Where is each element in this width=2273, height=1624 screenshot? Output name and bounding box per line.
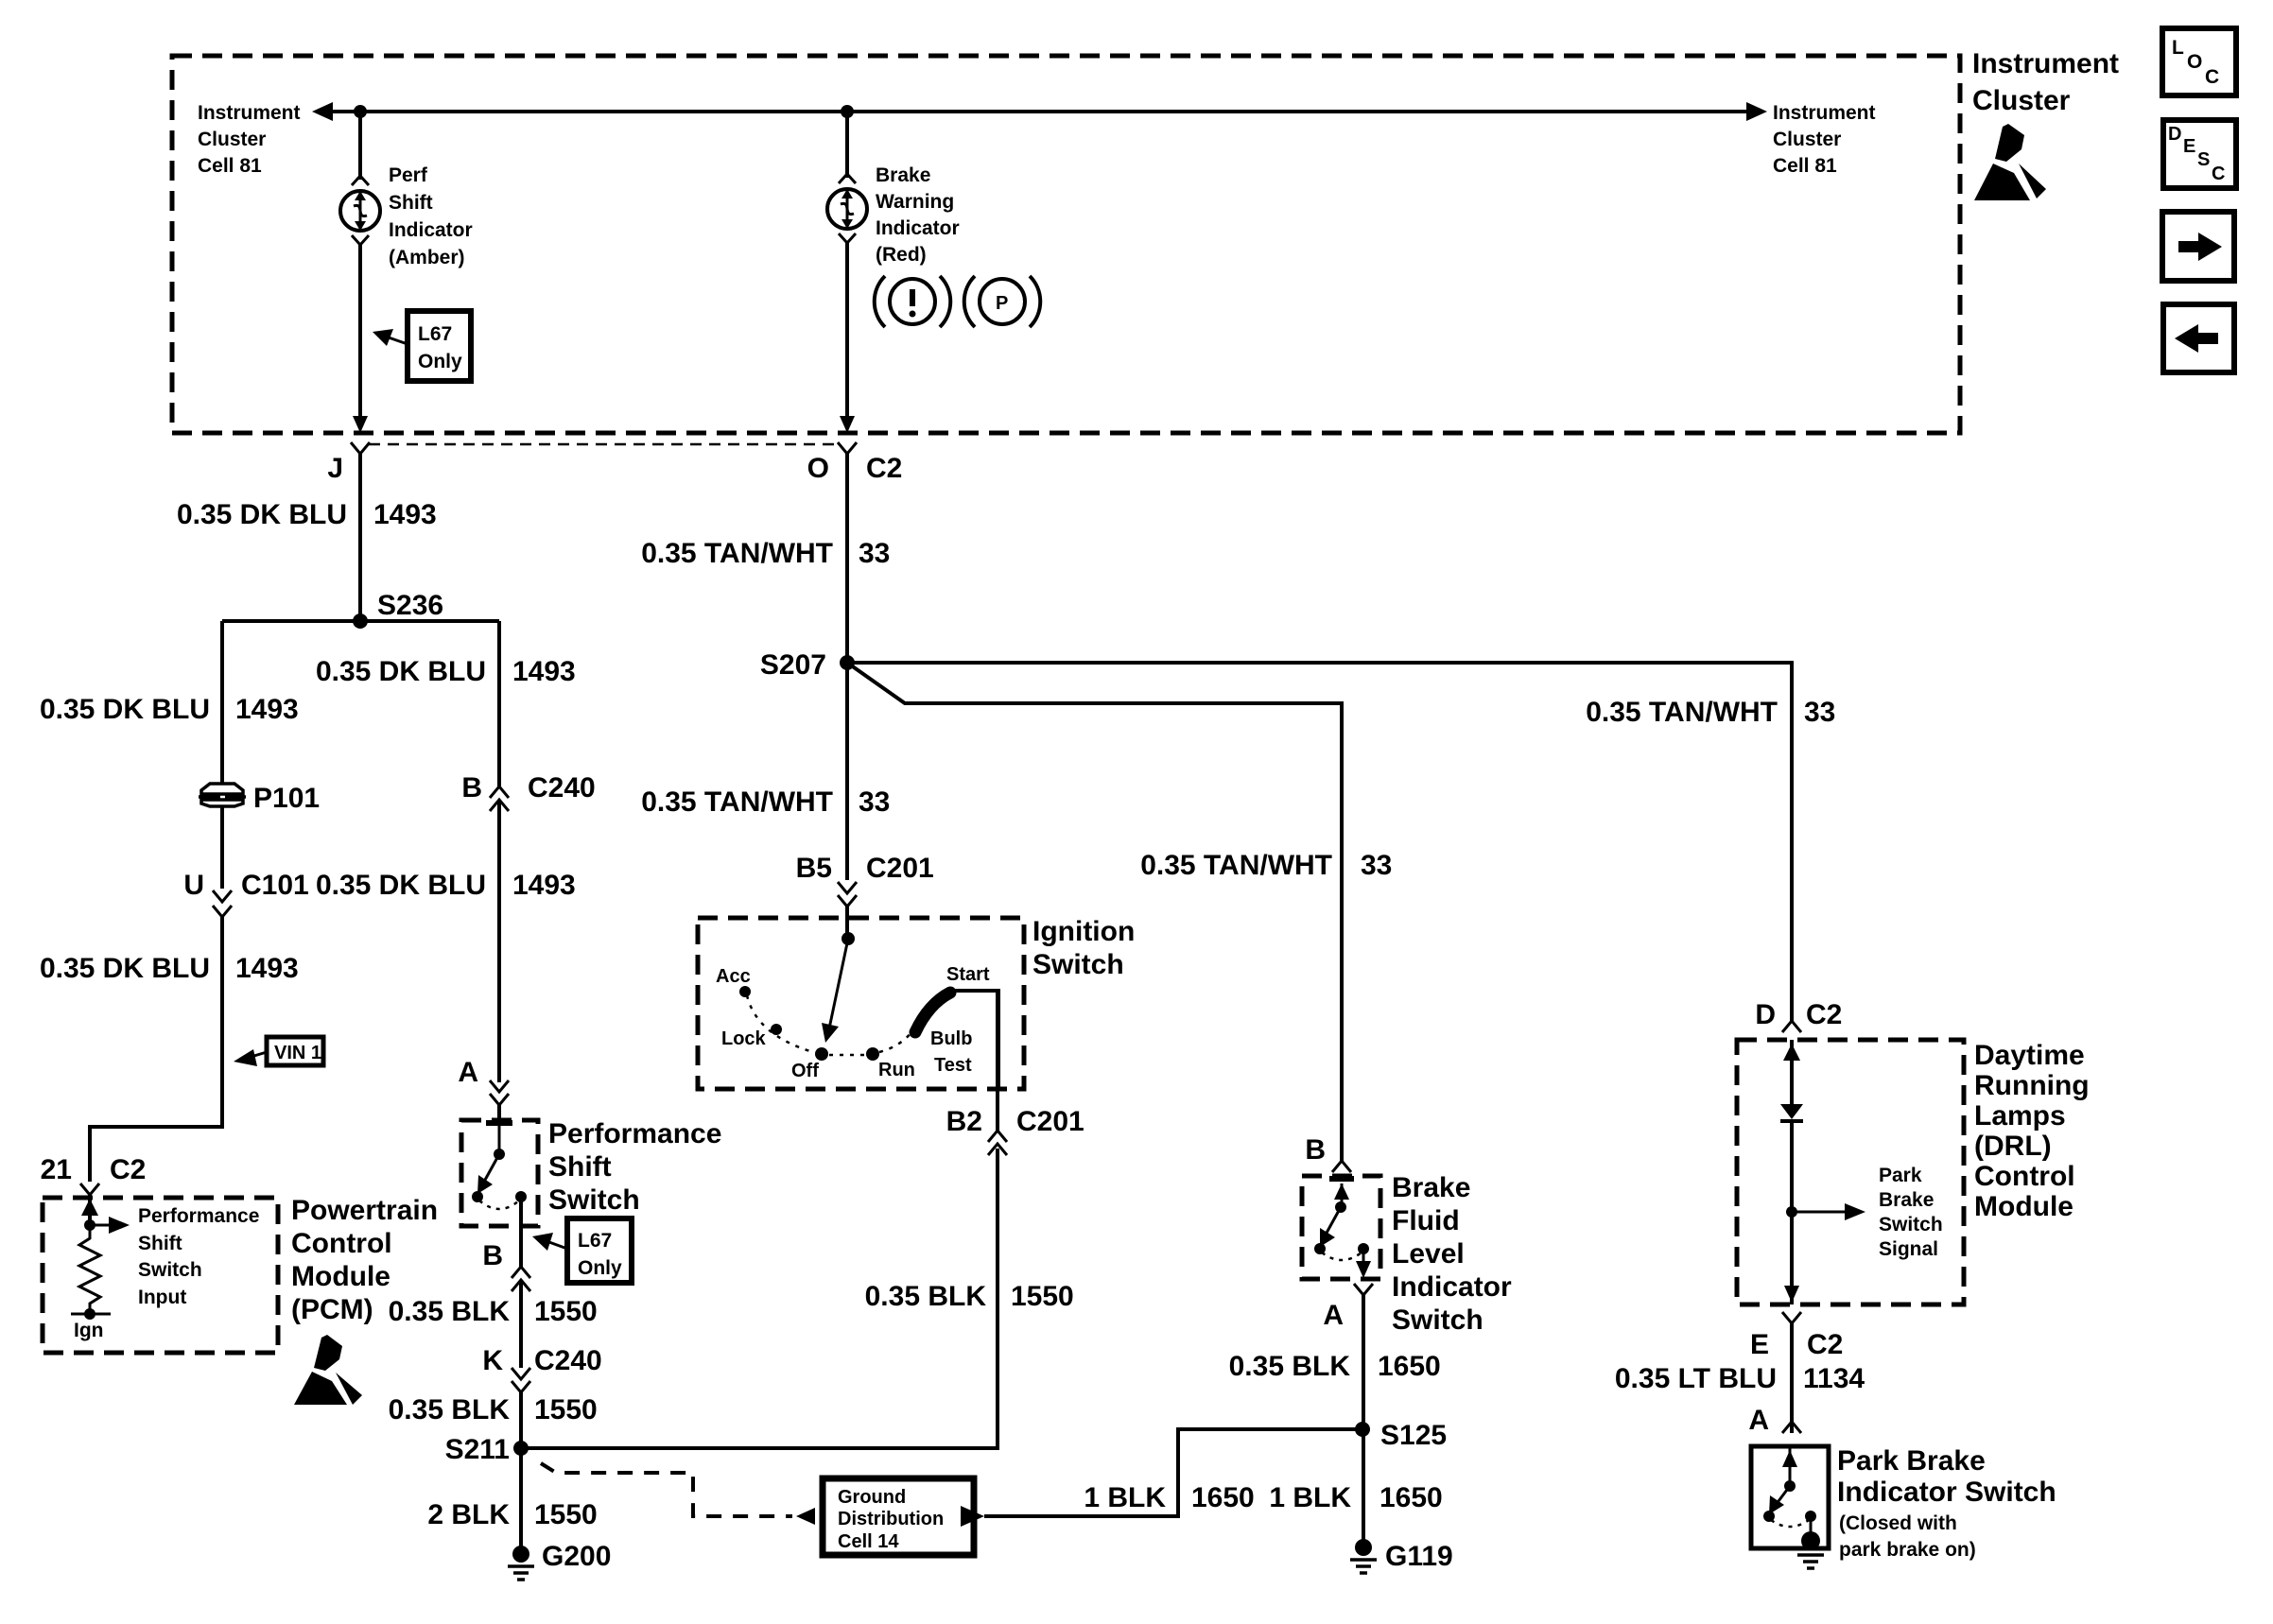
svg-text:G200: G200 — [542, 1541, 611, 1572]
svg-text:C2: C2 — [1807, 1329, 1843, 1360]
svg-text:Brake: Brake — [876, 164, 930, 186]
svg-text:Ground: Ground — [838, 1487, 906, 1508]
svg-text:Daytime: Daytime — [1974, 1040, 2085, 1071]
svg-text:C101: C101 — [241, 870, 309, 901]
wire: B2 riser up into ignition switch — [996, 991, 999, 1131]
svg-text:Switch: Switch — [548, 1184, 640, 1216]
dashed travel arc — [1322, 1253, 1362, 1260]
svg-text:C201: C201 — [1016, 1106, 1084, 1137]
connector B chevron (brake fluid) — [1332, 1161, 1351, 1172]
svg-text:A: A — [1748, 1405, 1769, 1436]
svg-text:1493: 1493 — [512, 656, 576, 687]
symbol: ESD sensitivity triangle (cluster) — [1974, 124, 2046, 200]
svg-text:Cell 81: Cell 81 — [198, 155, 262, 177]
svg-text:33: 33 — [1361, 850, 1392, 881]
performance shift switch dashed box — [461, 1120, 538, 1226]
arrowhead left on bus — [312, 102, 333, 121]
svg-text:Input: Input — [138, 1287, 186, 1308]
connector chevron below perf bulb — [352, 235, 369, 245]
svg-text:Only: Only — [578, 1257, 622, 1279]
lamp: perf shift indicator bulb — [340, 191, 380, 231]
ground G119 — [1350, 1539, 1453, 1573]
resistor inside PCM — [79, 1225, 100, 1314]
dashed travel arc — [479, 1201, 519, 1209]
diode — [1780, 1104, 1803, 1121]
ignition rotor node — [842, 932, 855, 945]
svg-text:P: P — [996, 293, 1008, 314]
svg-text:(PCM): (PCM) — [291, 1294, 373, 1325]
svg-text:Ign: Ign — [74, 1320, 104, 1341]
thin dashed connector line C2 between J and O — [369, 443, 840, 446]
svg-text:Shift: Shift — [389, 192, 433, 214]
svg-text:0.35 BLK: 0.35 BLK — [865, 1281, 987, 1312]
svg-text:Module: Module — [291, 1261, 390, 1292]
ground G200 — [508, 1541, 611, 1580]
wire: brake branch lower — [845, 243, 849, 429]
wire: diode down to bottom of DRL — [1790, 1119, 1794, 1304]
svg-text:Start: Start — [946, 964, 990, 985]
svg-text:0.35 TAN/WHT: 0.35 TAN/WHT — [641, 538, 833, 569]
next-page arrow box — [2162, 212, 2234, 281]
svg-text:1 BLK: 1 BLK — [1084, 1482, 1166, 1513]
svg-text:S236: S236 — [377, 590, 443, 621]
ignition selector arrow to Off — [829, 939, 848, 1028]
wire: main bus inside instrument cluster — [326, 110, 1754, 113]
svg-text:Warning: Warning — [876, 191, 954, 213]
symbol: ESD sensitivity triangle (PCM) — [294, 1335, 362, 1405]
wire: S207 diagonal branch to brake fluid switch — [847, 663, 1342, 1161]
svg-text:Cell 81: Cell 81 — [1773, 155, 1837, 177]
ignition switch dashed box — [698, 918, 1024, 1089]
svg-text:1134: 1134 — [1803, 1363, 1865, 1394]
svg-text:1493: 1493 — [235, 953, 299, 984]
svg-text:0.35 DK BLU: 0.35 DK BLU — [40, 953, 210, 984]
connector B5 / C201 chevrons (down) — [838, 882, 857, 893]
connector J chevron — [351, 442, 370, 454]
svg-text:C240: C240 — [534, 1345, 602, 1376]
wire: E to park brake indicator switch — [1790, 1323, 1794, 1433]
ignition position dots — [739, 986, 751, 997]
wire: K C240 to S211 — [519, 1392, 523, 1547]
svg-text:1493: 1493 — [235, 694, 299, 725]
connector A chevrons (down) — [490, 1080, 509, 1092]
connector A chevron (park brake) — [1782, 1422, 1801, 1433]
svg-text:Performance: Performance — [138, 1205, 259, 1227]
wire: into ignition box — [845, 907, 849, 939]
svg-text:Instrument: Instrument — [198, 102, 301, 124]
svg-text:C2: C2 — [110, 1154, 146, 1185]
svg-text:Acc: Acc — [716, 966, 751, 987]
wire: start contact out — [953, 991, 998, 1089]
svg-text:Lock: Lock — [721, 1028, 767, 1049]
svg-text:S: S — [2197, 149, 2210, 170]
connector U / C101 pass-through chevrons — [213, 890, 232, 902]
connector chevron above perf bulb — [352, 176, 369, 185]
svg-text:Perf: Perf — [389, 164, 428, 186]
connector chevron above brake bulb — [839, 174, 856, 183]
svg-text:Park: Park — [1879, 1165, 1922, 1186]
ground distribution cell 14 box — [823, 1478, 974, 1555]
wire: brake fluid switch to G119 — [1362, 1295, 1365, 1547]
svg-text:Switch: Switch — [1032, 949, 1124, 980]
connector chevron below brake bulb — [839, 233, 856, 243]
svg-text:Test: Test — [934, 1055, 972, 1076]
svg-text:21: 21 — [41, 1154, 72, 1185]
blade with arrowhead — [1326, 1207, 1341, 1235]
connector B / C240 pass-through chevrons (up) — [490, 786, 509, 798]
wire: perf shift indicator branch upper — [358, 112, 362, 180]
switch contact bar — [486, 1120, 512, 1126]
arrowhead at cluster boundary (brake) — [840, 416, 855, 433]
svg-text:Cluster: Cluster — [1773, 129, 1841, 150]
svg-text:B: B — [482, 1240, 503, 1271]
svg-text:C240: C240 — [528, 772, 596, 803]
node: Ign — [84, 1308, 95, 1320]
svg-text:0.35 DK BLU: 0.35 DK BLU — [316, 870, 486, 901]
svg-text:Instrument: Instrument — [1773, 102, 1876, 124]
wire: A into switch box — [497, 1105, 501, 1123]
svg-text:Fluid: Fluid — [1392, 1205, 1460, 1236]
L67 Only callout box (upper) — [373, 311, 471, 381]
svg-text:O: O — [807, 453, 829, 484]
node: bus to brake warning indicator — [841, 105, 854, 118]
connector 21 / C2 chevron — [80, 1183, 99, 1195]
wire inside DRL with up arrow — [1790, 1040, 1794, 1104]
svg-text:C: C — [2212, 164, 2225, 184]
svg-text:E: E — [2183, 136, 2195, 157]
svg-text:Running: Running — [1974, 1070, 2090, 1101]
svg-text:0.35 DK BLU: 0.35 DK BLU — [177, 499, 347, 530]
L67 Only callout box (lower) — [532, 1218, 632, 1283]
svg-text:0.35 TAN/WHT: 0.35 TAN/WHT — [1140, 850, 1332, 881]
svg-text:P101: P101 — [253, 783, 320, 814]
splice S236 — [353, 613, 368, 629]
svg-text:33: 33 — [859, 538, 890, 569]
down arrow at DRL bottom — [1784, 1286, 1799, 1303]
svg-text:Bulb: Bulb — [930, 1028, 972, 1049]
LOC reference box — [2162, 28, 2236, 95]
svg-text:0.35 BLK: 0.35 BLK — [389, 1296, 511, 1327]
svg-text:0.35 BLK: 0.35 BLK — [389, 1394, 511, 1425]
wire: perf branch lower — [358, 245, 362, 429]
wire: C101 down to PCM jog — [90, 917, 222, 1182]
instrument cluster dashed box — [172, 56, 1960, 433]
svg-text:Shift: Shift — [138, 1233, 182, 1254]
wire: S211 to B2 riser — [521, 1149, 998, 1448]
svg-text:1550: 1550 — [1011, 1281, 1074, 1312]
svg-text:U: U — [183, 870, 204, 901]
svg-text:E: E — [1750, 1329, 1769, 1360]
wire: S207 right branch to DRL — [847, 663, 1792, 1021]
arrow to performance shift switch input — [90, 1224, 112, 1227]
wire into PCM with up arrow — [88, 1195, 92, 1225]
svg-text:A: A — [1323, 1300, 1344, 1331]
svg-text:B2: B2 — [946, 1106, 982, 1137]
svg-text:0.35 TAN/WHT: 0.35 TAN/WHT — [641, 786, 833, 818]
blade with arrowhead — [1776, 1486, 1790, 1505]
bulb test thick arc — [915, 993, 950, 1032]
svg-text:Switch: Switch — [138, 1259, 202, 1281]
svg-text:1550: 1550 — [534, 1499, 598, 1530]
wire: ground distribution to S125 — [984, 1429, 1362, 1516]
svg-text:B5: B5 — [796, 853, 832, 884]
svg-text:C201: C201 — [866, 853, 934, 884]
dashed position arc — [747, 995, 813, 1052]
switch blade with arrowhead — [484, 1154, 499, 1182]
svg-text:Cluster: Cluster — [1972, 85, 2071, 116]
svg-text:0.35 LT BLU: 0.35 LT BLU — [1615, 1363, 1777, 1394]
svg-text:Control: Control — [291, 1228, 392, 1259]
wire with up arrow inside — [1789, 1446, 1792, 1486]
svg-text:(Red): (Red) — [876, 244, 927, 266]
svg-text:Only: Only — [418, 351, 462, 372]
svg-text:S125: S125 — [1380, 1420, 1447, 1451]
svg-text:Cluster: Cluster — [198, 129, 266, 150]
svg-text:33: 33 — [859, 786, 890, 818]
lamp: brake warning indicator bulb — [827, 189, 867, 229]
svg-text:B: B — [1305, 1134, 1326, 1166]
svg-text:Distribution: Distribution — [838, 1509, 944, 1529]
svg-text:Cell 14: Cell 14 — [838, 1531, 899, 1552]
wire: P101 to C101 — [220, 806, 224, 889]
svg-text:0.35 DK BLU: 0.35 DK BLU — [40, 694, 210, 725]
svg-text:Run: Run — [878, 1060, 915, 1080]
arrowhead out of ground distribution box — [961, 1506, 984, 1527]
node inside PCM — [84, 1219, 95, 1231]
arrowhead right on bus — [1746, 102, 1767, 121]
svg-text:1550: 1550 — [534, 1296, 598, 1327]
svg-text:Park Brake: Park Brake — [1837, 1445, 1986, 1477]
VIN 1 callout box — [234, 1037, 323, 1066]
svg-text:1650: 1650 — [1191, 1482, 1255, 1513]
connector K / C240 chevrons (down) — [512, 1368, 530, 1379]
svg-text:0.35 BLK: 0.35 BLK — [1229, 1351, 1351, 1382]
svg-text:2 BLK: 2 BLK — [427, 1499, 510, 1530]
svg-text:(DRL): (DRL) — [1974, 1131, 2052, 1162]
svg-text:L67: L67 — [578, 1230, 612, 1252]
svg-text:J: J — [327, 453, 343, 484]
svg-text:Shift: Shift — [548, 1151, 612, 1183]
svg-text:Control: Control — [1974, 1161, 2075, 1192]
wire: down to K C240 — [519, 1280, 523, 1368]
svg-text:Indicator Switch: Indicator Switch — [1837, 1477, 2056, 1508]
connector chevrons up (B into C240) — [512, 1267, 530, 1278]
svg-text:C: C — [2205, 66, 2219, 88]
arrowhead at cluster boundary (perf) — [353, 416, 368, 433]
svg-text:Powertrain: Powertrain — [291, 1195, 438, 1226]
wire: J to S236 — [358, 454, 362, 621]
wire to ground dot — [1810, 1516, 1813, 1535]
svg-text:(Closed with: (Closed with — [1839, 1512, 1957, 1534]
svg-text:O: O — [2187, 51, 2202, 73]
wire: brake warning indicator branch upper — [845, 112, 849, 178]
svg-text:1650: 1650 — [1379, 1482, 1443, 1513]
connector D / C2 chevron — [1782, 1021, 1801, 1032]
connector A chevron below box — [1354, 1284, 1373, 1295]
svg-text:L: L — [2172, 37, 2184, 59]
svg-text:Signal: Signal — [1879, 1238, 1938, 1260]
svg-text:S207: S207 — [760, 649, 826, 681]
connector E / C2 chevron below DRL — [1782, 1312, 1801, 1323]
output arrow down through box edge — [1362, 1249, 1365, 1268]
svg-text:C2: C2 — [866, 453, 902, 484]
connector O chevron — [838, 442, 857, 454]
svg-text:33: 33 — [1804, 697, 1835, 728]
wire to blade pivot — [498, 1123, 501, 1154]
svg-text:0.35 TAN/WHT: 0.35 TAN/WHT — [1586, 697, 1778, 728]
brake fluid level indicator switch dashed box — [1302, 1176, 1380, 1279]
svg-text:Switch: Switch — [1879, 1214, 1943, 1235]
svg-text:S211: S211 — [445, 1434, 510, 1465]
connector B2 / C201 chevrons (up) — [988, 1131, 1007, 1142]
svg-text:Level: Level — [1392, 1238, 1465, 1270]
svg-text:1650: 1650 — [1378, 1351, 1441, 1382]
svg-text:(Amber): (Amber) — [389, 247, 465, 268]
symbol: park brake telltale ((P)) — [964, 276, 1041, 327]
svg-text:Brake: Brake — [1879, 1189, 1934, 1211]
svg-text:Ignition: Ignition — [1032, 916, 1135, 947]
wire: right sub-branch down from S236 — [497, 621, 501, 786]
prev-page arrow box — [2163, 304, 2234, 372]
grommet P101 — [199, 783, 320, 814]
arrowhead into dashed route — [796, 1508, 815, 1525]
wire: O/C2 down to ignition switch — [845, 454, 849, 880]
DESC reference box — [2163, 120, 2236, 188]
svg-text:Indicator: Indicator — [1392, 1271, 1512, 1303]
symbol: brake warning telltale ((!)) — [875, 276, 951, 327]
svg-text:D: D — [1755, 999, 1776, 1030]
svg-text:D: D — [2168, 124, 2181, 145]
dashed route S211 to ground distribution — [541, 1463, 792, 1516]
wire: C240 to performance shift switch — [497, 800, 501, 1082]
svg-text:0.35 DK BLU: 0.35 DK BLU — [316, 656, 486, 687]
splice S211 — [513, 1441, 529, 1456]
svg-text:G119: G119 — [1385, 1541, 1453, 1572]
node: park brake switch signal tap — [1786, 1206, 1797, 1218]
svg-text:K: K — [482, 1345, 503, 1376]
svg-text:Switch: Switch — [1392, 1304, 1484, 1336]
dashed travel arc — [1771, 1520, 1809, 1527]
node: bus to perf shift indicator — [354, 105, 367, 118]
svg-text:park brake on): park brake on) — [1839, 1539, 1976, 1561]
park brake indicator switch box — [1751, 1446, 1829, 1548]
wire: S236 horizontal — [222, 619, 499, 623]
svg-text:1493: 1493 — [373, 499, 437, 530]
svg-text:Lamps: Lamps — [1974, 1100, 2066, 1132]
svg-text:Indicator: Indicator — [389, 219, 473, 241]
svg-text:Off: Off — [791, 1061, 819, 1081]
svg-text:1550: 1550 — [534, 1394, 598, 1425]
svg-text:Module: Module — [1974, 1191, 2073, 1222]
PCM dashed box — [43, 1198, 278, 1353]
svg-text:A: A — [458, 1057, 478, 1088]
svg-text:Brake: Brake — [1392, 1172, 1470, 1203]
wire: switch output down — [519, 1197, 523, 1267]
splice S125 — [1355, 1422, 1370, 1437]
svg-text:1493: 1493 — [512, 870, 576, 901]
splice S207 — [840, 655, 855, 670]
arrow up to contact — [1341, 1183, 1344, 1207]
ground at park brake switch — [1797, 1531, 1824, 1568]
svg-text:Instrument: Instrument — [1972, 48, 2119, 79]
wire: left sub-branch down from S236 — [220, 621, 224, 785]
svg-text:L67: L67 — [418, 323, 452, 345]
svg-text:Performance: Performance — [548, 1118, 721, 1149]
svg-text:B: B — [461, 772, 482, 803]
svg-text:C2: C2 — [1806, 999, 1842, 1030]
fixed contact bar — [1329, 1176, 1354, 1182]
daytime running lamps DRL control module dashed box — [1737, 1040, 1964, 1304]
svg-text:Indicator: Indicator — [876, 217, 960, 239]
svg-text:VIN 1: VIN 1 — [274, 1043, 321, 1063]
svg-text:1 BLK: 1 BLK — [1269, 1482, 1351, 1513]
